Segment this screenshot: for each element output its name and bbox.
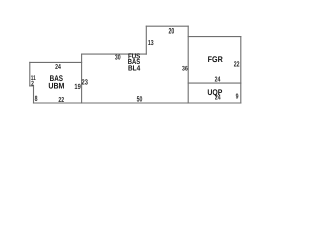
wall shared BAS/FUS vertical (19/23 ft) — [81, 54, 83, 103]
svg-text:24: 24 — [215, 75, 221, 84]
svg-text:BL4: BL4 — [128, 64, 141, 73]
svg-text:19: 19 — [74, 82, 80, 91]
svg-text:2: 2 — [31, 79, 34, 87]
wall bottom BAS+FUS (22/50 ft) — [34, 102, 189, 104]
wall BAS top — [30, 61, 82, 63]
svg-text:22: 22 — [58, 95, 64, 104]
wall UQP bottom (24 ft) — [188, 102, 241, 104]
svg-text:36: 36 — [182, 64, 188, 72]
wall upper-box top (20 ft) — [146, 25, 188, 27]
wall FGR top — [188, 36, 241, 38]
svg-text:13: 13 — [148, 38, 154, 47]
wall BAS jog (2 ft) — [30, 85, 34, 87]
wall main right vertical (36 ft) — [187, 26, 189, 103]
svg-text:22: 22 — [234, 59, 240, 68]
svg-text:30: 30 — [115, 53, 121, 62]
wall upper-box left (13 ft) — [145, 26, 147, 54]
wall FGR/UQP divider (24 ft) — [188, 82, 241, 84]
svg-text:20: 20 — [169, 26, 175, 36]
svg-text:9: 9 — [236, 92, 239, 101]
svg-text:24: 24 — [215, 93, 221, 102]
svg-text:UBM: UBM — [48, 81, 64, 90]
svg-text:50: 50 — [137, 94, 143, 103]
svg-text:23: 23 — [82, 77, 88, 86]
svg-text:8: 8 — [35, 93, 38, 103]
wall BAS left upper (11 ft) — [29, 62, 31, 86]
wall BAS left lower (8 ft) — [33, 86, 35, 103]
svg-text:FGR: FGR — [208, 55, 223, 64]
svg-text:24: 24 — [55, 62, 61, 71]
wall FUS top (30 ft) — [82, 53, 147, 55]
wall FGR right (22/9 ft) — [240, 37, 242, 103]
